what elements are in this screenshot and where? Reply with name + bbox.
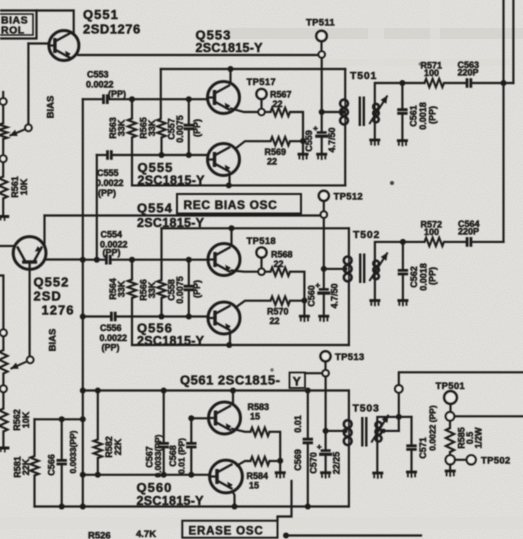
svg-text:C562: C562 bbox=[409, 266, 419, 288]
ground below R584 junction bbox=[275, 471, 286, 474]
wire C558 lower lead bbox=[188, 292, 190, 314]
wire R565 to Q555 base line bbox=[160, 138, 162, 153]
junction at T501 primary tap bbox=[340, 110, 345, 115]
wire stub above ERASE OSC box bbox=[278, 481, 292, 521]
wire C557 upper lead bbox=[188, 99, 190, 123]
svg-text:C566: C566 bbox=[46, 454, 56, 476]
wire Q554 base line bbox=[110, 259, 208, 261]
resistor R581 bbox=[30, 456, 38, 475]
wire Q553 base line bbox=[107, 98, 207, 100]
wire T502 secondary top bbox=[375, 242, 403, 260]
resistor R564 bbox=[128, 280, 136, 298]
svg-text:0.0022: 0.0022 bbox=[96, 178, 124, 188]
wire junction to ground bbox=[279, 461, 281, 472]
terminal wiper circle of bias pot 2 bbox=[27, 357, 34, 364]
adjustable-core arrow T501 bbox=[369, 96, 387, 125]
ground below R569 junction bbox=[298, 153, 309, 156]
potentiometer VR bias (lower) bbox=[0, 350, 8, 374]
wire bbox=[265, 271, 271, 273]
svg-text:Y: Y bbox=[293, 374, 301, 388]
wire Q560 emitter bbox=[233, 492, 235, 505]
connector circle (erase head lead) bbox=[395, 385, 403, 393]
svg-text:R567: R567 bbox=[270, 90, 292, 100]
svg-text:1/2W: 1/2W bbox=[473, 427, 483, 449]
wire top rail of Q554 oscillator bbox=[162, 227, 349, 229]
capacitor C568 bbox=[186, 443, 196, 447]
junction on bottom wire bbox=[283, 533, 289, 539]
transformer T503 secondary winding bbox=[376, 422, 382, 428]
label box ERASE OSC bbox=[182, 521, 277, 538]
svg-text:TP513: TP513 bbox=[335, 352, 365, 363]
wire bbox=[2, 105, 4, 123]
terminal circle above bias pot 2 bbox=[0, 329, 7, 336]
svg-text:T501: T501 bbox=[350, 70, 377, 82]
wire boxed-Y to TP513 bbox=[305, 372, 322, 374]
wire C555 left lead bbox=[97, 154, 108, 156]
wire Q551 collector to BIAS CONTROL box bbox=[37, 11, 74, 35]
svg-text:4.7/50: 4.7/50 bbox=[329, 283, 339, 308]
svg-text:(PP): (PP) bbox=[103, 248, 121, 258]
capacitor C553 bbox=[104, 94, 108, 104]
junction Q556 emitter on bottom rail bbox=[226, 342, 232, 348]
junction C568 top on Q561 base bbox=[188, 415, 194, 421]
svg-text:(PP): (PP) bbox=[98, 188, 116, 198]
wire C570 upper lead bbox=[325, 431, 327, 449]
svg-text:2SD1276: 2SD1276 bbox=[83, 22, 141, 37]
svg-text:0.0033(PP): 0.0033(PP) bbox=[68, 430, 78, 473]
wire R585 upper lead bbox=[449, 421, 451, 428]
svg-text:TP511: TP511 bbox=[306, 18, 335, 29]
wire C567 upper lead bbox=[163, 391, 165, 442]
wire to R571 bbox=[402, 82, 424, 84]
svg-text:10K: 10K bbox=[19, 178, 29, 195]
test point TP518 terminal bbox=[258, 269, 264, 275]
junction at T503 secondary tap bbox=[381, 429, 386, 434]
ground below T502 secondary bbox=[369, 299, 380, 302]
transistor Q561 bbox=[209, 402, 241, 434]
svg-text:TP502: TP502 bbox=[481, 456, 511, 467]
wire bus B vertical (C555 to C554 line) bbox=[96, 155, 98, 260]
wire T502 secondary bottom bbox=[374, 280, 376, 300]
svg-text:0.0022: 0.0022 bbox=[100, 333, 128, 343]
junction R582 bottom bbox=[95, 472, 101, 478]
svg-text:0.01: 0.01 bbox=[293, 415, 303, 433]
wire Q556 emitter bbox=[229, 332, 231, 343]
wire Q555 base line bbox=[111, 154, 207, 156]
junction C567 bottom bbox=[161, 472, 167, 478]
svg-text:0.0018: 0.0018 bbox=[418, 102, 428, 130]
svg-text:33K: 33K bbox=[147, 281, 157, 298]
junction C560 / center tap bbox=[321, 266, 327, 272]
resistor R568 bbox=[271, 268, 290, 276]
svg-text:C555: C555 bbox=[97, 168, 119, 178]
wire R566 to Q556 base line bbox=[160, 298, 162, 314]
wire Q553 emitter bbox=[231, 109, 258, 113]
wire R583 to junction bbox=[270, 432, 281, 459]
svg-text:220P: 220P bbox=[458, 227, 479, 237]
wire R569 right lead bbox=[290, 140, 303, 142]
terminal circle above R561 bbox=[0, 155, 7, 162]
svg-text:22: 22 bbox=[274, 259, 284, 269]
wire bus A vertical bbox=[82, 99, 84, 506]
wire Q551 emitter to TP511 bbox=[78, 54, 318, 56]
adjustable-core arrow T502 bbox=[369, 253, 387, 282]
svg-text:100: 100 bbox=[424, 68, 439, 78]
wire R570 right lead bbox=[290, 300, 304, 302]
junction erase head line bbox=[396, 414, 402, 420]
svg-text:REC BIAS OSC: REC BIAS OSC bbox=[184, 198, 278, 212]
wire TP518 stub bbox=[260, 258, 262, 269]
test point TP501 circle bbox=[444, 391, 457, 404]
wire R563 upper lead bbox=[131, 99, 133, 118]
svg-text:22K: 22K bbox=[21, 458, 31, 475]
wire R568 to junction bbox=[290, 272, 304, 301]
transformer T501 secondary winding bbox=[373, 104, 379, 110]
transformer T501 core bbox=[360, 97, 364, 127]
svg-text:100: 100 bbox=[424, 227, 439, 237]
wire C568 lower lead bbox=[190, 449, 192, 472]
junction R583/R584 bbox=[277, 458, 283, 464]
wire rail to R565 bbox=[160, 69, 162, 119]
svg-text:(PP): (PP) bbox=[108, 89, 126, 99]
svg-text:TP512: TP512 bbox=[334, 191, 364, 202]
test point TP518 circle bbox=[257, 248, 267, 258]
test point TP512 circle bbox=[319, 191, 329, 201]
svg-text:T503: T503 bbox=[353, 403, 380, 415]
junction bus A / erase rail bbox=[80, 388, 86, 394]
resistor R561 bbox=[0, 177, 7, 199]
wire C556 left lead bbox=[83, 315, 112, 317]
wire C558 upper lead bbox=[188, 260, 190, 285]
ground below R570 junction bbox=[299, 315, 310, 318]
capacitor C570 electrolytic bbox=[321, 449, 331, 452]
terminal wiper circle of bias pot bbox=[25, 125, 32, 132]
resistor R569 bbox=[271, 137, 290, 145]
capacitor C564 bbox=[467, 237, 471, 247]
svg-text:33K: 33K bbox=[147, 119, 157, 136]
wire second right rail bbox=[512, 0, 514, 83]
capacitor C566 bbox=[57, 460, 67, 464]
junction C569 top bbox=[305, 388, 311, 394]
svg-text:R583: R583 bbox=[248, 402, 270, 412]
svg-text:R568: R568 bbox=[271, 250, 293, 260]
wire TP517 stub bbox=[260, 99, 262, 109]
wire rail to R566 bbox=[160, 228, 162, 280]
wire Q551 base bbox=[28, 42, 49, 44]
wire junction to ground bbox=[303, 301, 305, 316]
wiper arrow of bias pot bbox=[10, 129, 26, 136]
wire bbox=[2, 162, 4, 176]
junction C567 top bbox=[161, 388, 167, 394]
test point TP513 circle bbox=[321, 351, 331, 361]
svg-text:2SC1815-Y: 2SC1815-Y bbox=[137, 216, 205, 230]
wire C554 left lead bbox=[83, 259, 107, 261]
wire R572 to C564 bbox=[444, 241, 467, 243]
svg-text:0.0022 (PP): 0.0022 (PP) bbox=[428, 405, 438, 451]
svg-text:15: 15 bbox=[250, 412, 260, 422]
resistor R570 bbox=[271, 297, 290, 305]
svg-text:22K: 22K bbox=[113, 438, 123, 455]
svg-text:(PP): (PP) bbox=[428, 267, 438, 285]
svg-text:T502: T502 bbox=[353, 229, 380, 241]
transistor Q552 bbox=[13, 237, 46, 270]
wire C567 lower lead bbox=[163, 449, 165, 472]
svg-text:33K: 33K bbox=[116, 119, 126, 136]
svg-text:22: 22 bbox=[273, 99, 283, 109]
capacitor C567 bbox=[159, 443, 169, 447]
capacitor C562 bbox=[398, 270, 408, 274]
wire R582 lower lead bbox=[97, 458, 99, 472]
resistor R585 bbox=[446, 428, 454, 452]
wire C571 lower lead bbox=[410, 451, 412, 471]
svg-text:TP517: TP517 bbox=[247, 77, 277, 88]
wire C570 lower lead bbox=[325, 456, 327, 472]
adjustable-core arrow T503 bbox=[371, 415, 388, 443]
transformer T502 core bbox=[360, 254, 364, 284]
wire bottom rail of erase oscillator bbox=[35, 505, 349, 507]
junction Q555 emitter on bottom rail bbox=[226, 182, 232, 188]
wire T501 secondary bottom bbox=[374, 123, 376, 139]
wire Q556 collector bbox=[236, 301, 271, 308]
resistor R582 bbox=[94, 440, 102, 458]
svg-text:Q551: Q551 bbox=[83, 7, 119, 22]
capacitor C559 electrolytic bbox=[317, 131, 327, 134]
speck artifacts bbox=[390, 181, 394, 185]
svg-text:1276: 1276 bbox=[42, 303, 75, 318]
svg-text:Q552: Q552 bbox=[34, 275, 70, 290]
wire T503 secondary bottom bbox=[376, 442, 378, 472]
wire C560 upper lead bbox=[323, 269, 325, 288]
svg-text:(PP): (PP) bbox=[192, 119, 202, 137]
wire bbox=[265, 111, 271, 113]
junction bus A / bottom rail bbox=[80, 504, 86, 510]
junction C559 / center tap bbox=[319, 109, 325, 115]
wire T503 primary bottom lead bbox=[348, 445, 350, 506]
resistor R562 bbox=[0, 409, 8, 432]
wire Q554 collector bbox=[230, 228, 232, 245]
junction C566 top bbox=[59, 416, 65, 422]
wire C566 lower lead bbox=[61, 466, 63, 504]
resistor R571 bbox=[425, 79, 444, 87]
transformer T502 secondary winding bbox=[373, 261, 379, 267]
ground below C562 bbox=[397, 299, 408, 302]
svg-text:ERASE OSC: ERASE OSC bbox=[189, 526, 264, 538]
wire C562 upper lead bbox=[402, 242, 404, 269]
svg-text:C569: C569 bbox=[293, 449, 303, 471]
wire C568 upper lead bbox=[190, 418, 192, 441]
wire left supply entering from page edge bbox=[0, 276, 3, 330]
wire TP512 stub bbox=[323, 201, 325, 212]
capacitor C571 bbox=[406, 446, 416, 450]
wire to R572 bbox=[403, 241, 425, 243]
wire bbox=[2, 392, 4, 408]
resistor R565 bbox=[157, 119, 165, 138]
svg-text:Q554: Q554 bbox=[137, 201, 173, 216]
resistor R584 bbox=[251, 457, 270, 465]
wire Q560 base line bbox=[83, 474, 210, 476]
ground below T503 secondary bbox=[372, 472, 383, 475]
junction Q560 emitter on bottom rail bbox=[232, 504, 238, 510]
wire Q552 collector lead bbox=[43, 216, 45, 247]
svg-text:220P: 220P bbox=[458, 68, 479, 78]
wire R561 to ground bar bbox=[2, 199, 4, 216]
svg-text:C561: C561 bbox=[408, 105, 418, 127]
svg-text:22/25: 22/25 bbox=[331, 452, 341, 475]
svg-text:C560: C560 bbox=[306, 285, 316, 307]
wire Q551 base to bias pot wiper bbox=[27, 44, 29, 125]
wire C564 to rail bbox=[471, 241, 504, 243]
svg-text:0.01 (PP): 0.01 (PP) bbox=[177, 438, 187, 474]
wire Q554 emitter bbox=[232, 271, 259, 272]
wire Q552 collector line to TP512 bbox=[45, 214, 321, 216]
wire T503 center tap bbox=[326, 430, 343, 432]
junction C566 bottom bbox=[59, 504, 65, 510]
ground below C559 bbox=[316, 153, 327, 156]
wire Q561 base line bbox=[191, 417, 208, 419]
ground below C571 bbox=[406, 471, 417, 474]
wire TP501 to right edge bbox=[454, 415, 523, 417]
svg-text:C556: C556 bbox=[100, 323, 122, 333]
label box REC BIAS OSC bbox=[177, 194, 301, 214]
transistor Q556 bbox=[208, 302, 240, 334]
junction R565 bottom bbox=[159, 152, 165, 158]
svg-text:C571: C571 bbox=[418, 437, 428, 459]
svg-text:C559: C559 bbox=[304, 130, 314, 152]
svg-text:R526: R526 bbox=[88, 531, 111, 539]
ground below C570 bbox=[320, 471, 331, 474]
ground below T501 secondary bbox=[369, 139, 380, 142]
capacitor C563 bbox=[467, 78, 471, 88]
svg-text:(PP): (PP) bbox=[427, 106, 437, 124]
wire to TP502 bbox=[455, 459, 467, 461]
junction at T502 primary tap bbox=[342, 266, 347, 271]
wire TP513 to T503 center tap bbox=[325, 376, 327, 431]
junction C568 bottom bbox=[188, 472, 194, 478]
wire tap to connector circle bbox=[398, 393, 400, 431]
wire bottom rail of Q553 oscillator bbox=[132, 184, 345, 186]
transformer T501 primary winding bbox=[340, 100, 348, 108]
wire bbox=[2, 336, 4, 350]
svg-text:22: 22 bbox=[270, 316, 280, 326]
ground below R585 bbox=[445, 470, 456, 473]
wire TP512 to T502 center tap bbox=[323, 218, 325, 269]
wire T502 center tap bbox=[324, 268, 343, 270]
wire to C571 bbox=[399, 416, 412, 418]
transistor Q560 bbox=[210, 460, 243, 493]
transformer T502 primary winding bbox=[344, 257, 352, 265]
wire Q561 collector bbox=[232, 391, 234, 405]
wire T501 secondary top bbox=[375, 83, 403, 104]
wire R563 lower lead to bottom rail bbox=[131, 138, 133, 186]
wire stub above terminal bbox=[2, 92, 4, 98]
wire Q555 collector bbox=[236, 141, 271, 148]
wire junction to ground bbox=[302, 141, 304, 153]
wire to ground bbox=[449, 464, 451, 469]
wire R584 right lead bbox=[270, 460, 281, 462]
transistor Q551 bbox=[49, 31, 79, 61]
transistor Q553 bbox=[208, 82, 240, 114]
wire Q556 base line bbox=[115, 315, 208, 317]
wire TP501 stub bbox=[449, 404, 451, 412]
svg-text:15: 15 bbox=[249, 481, 259, 491]
wire bbox=[2, 374, 4, 386]
wire TP511 stub bbox=[320, 41, 322, 51]
svg-text:0.0075: 0.0075 bbox=[175, 115, 185, 143]
wire Q561 emitter bbox=[232, 429, 251, 432]
junction C558 top bbox=[186, 257, 192, 263]
svg-text:C553: C553 bbox=[87, 70, 109, 80]
capacitor C556 bbox=[111, 312, 115, 322]
wire C561 upper lead bbox=[401, 83, 403, 108]
capacitor C569 bbox=[303, 439, 313, 443]
transformer T503 core bbox=[362, 417, 366, 447]
svg-text:0.0033(PP): 0.0033(PP) bbox=[153, 434, 163, 477]
wire R581/C566 top line bbox=[35, 418, 83, 420]
junction Q554 collector-rail bbox=[229, 225, 235, 231]
wire R582 upper lead bbox=[97, 391, 99, 440]
wire R567 to junction bbox=[290, 112, 303, 141]
wire C559 upper lead bbox=[321, 112, 323, 131]
wire Q553 collector bbox=[229, 69, 231, 84]
terminal circle above R562 bbox=[0, 385, 7, 392]
ground bar below R562 bbox=[0, 447, 9, 450]
svg-text:C570: C570 bbox=[308, 452, 318, 474]
ground below C560 bbox=[318, 315, 329, 318]
svg-text:2SC1815-Y: 2SC1815-Y bbox=[196, 41, 264, 55]
wire C560 lower lead bbox=[323, 295, 325, 315]
transformer T503 primary winding bbox=[344, 420, 352, 428]
wire top rail of erase oscillator bbox=[83, 389, 349, 391]
test point TP517 terminal bbox=[258, 109, 264, 115]
potentiometer VR bias (upper) bbox=[0, 123, 7, 139]
wire Q552 base to bias pot 2 wiper bbox=[29, 269, 31, 356]
svg-text:(PP): (PP) bbox=[192, 280, 202, 298]
wire C569 upper lead bbox=[307, 391, 309, 438]
terminal circle below R585 bbox=[446, 455, 455, 464]
label boxed Y (Q561 grade) bbox=[290, 373, 306, 389]
wire R581 lower lead to bottom rail bbox=[33, 476, 35, 507]
svg-text:R570: R570 bbox=[267, 307, 289, 317]
svg-text:BIAS: BIAS bbox=[47, 329, 58, 352]
svg-text:2SD: 2SD bbox=[34, 289, 62, 304]
wire to right edge (erase head) bbox=[399, 372, 523, 385]
wire T503 secondary tap bbox=[384, 430, 399, 432]
junction C558 bottom bbox=[186, 314, 192, 320]
resistor R583 bbox=[251, 428, 270, 436]
label box BIAS CONTROL (cut at left edge) bbox=[0, 11, 37, 39]
ground below C561 bbox=[397, 139, 408, 142]
ground bar below R561 bbox=[0, 215, 9, 218]
junction at T503 primary tap bbox=[343, 428, 348, 433]
wire T502 primary top lead bbox=[348, 228, 350, 256]
wire bbox=[2, 139, 4, 155]
capacitor C558 bbox=[184, 286, 194, 290]
wire T503 primary top lead bbox=[348, 391, 350, 420]
svg-text:Q560: Q560 bbox=[137, 480, 173, 495]
svg-text:C554: C554 bbox=[101, 230, 123, 240]
test point TP511 terminal bbox=[319, 51, 325, 57]
junction bus A / R581-C566 line bbox=[80, 416, 86, 422]
junction R567/R569 bbox=[300, 138, 306, 144]
junction bus A / Q560 base line bbox=[80, 472, 86, 478]
wire bottom (cut at page bottom) bbox=[286, 534, 421, 536]
junction R568/R570 bbox=[301, 298, 307, 304]
wire top rail of Q553 oscillator bbox=[161, 68, 345, 70]
junction on right rail bbox=[501, 80, 507, 86]
junction R563 top bbox=[129, 96, 135, 102]
junction C557 bottom bbox=[186, 152, 192, 158]
svg-text:TP518: TP518 bbox=[247, 236, 277, 247]
